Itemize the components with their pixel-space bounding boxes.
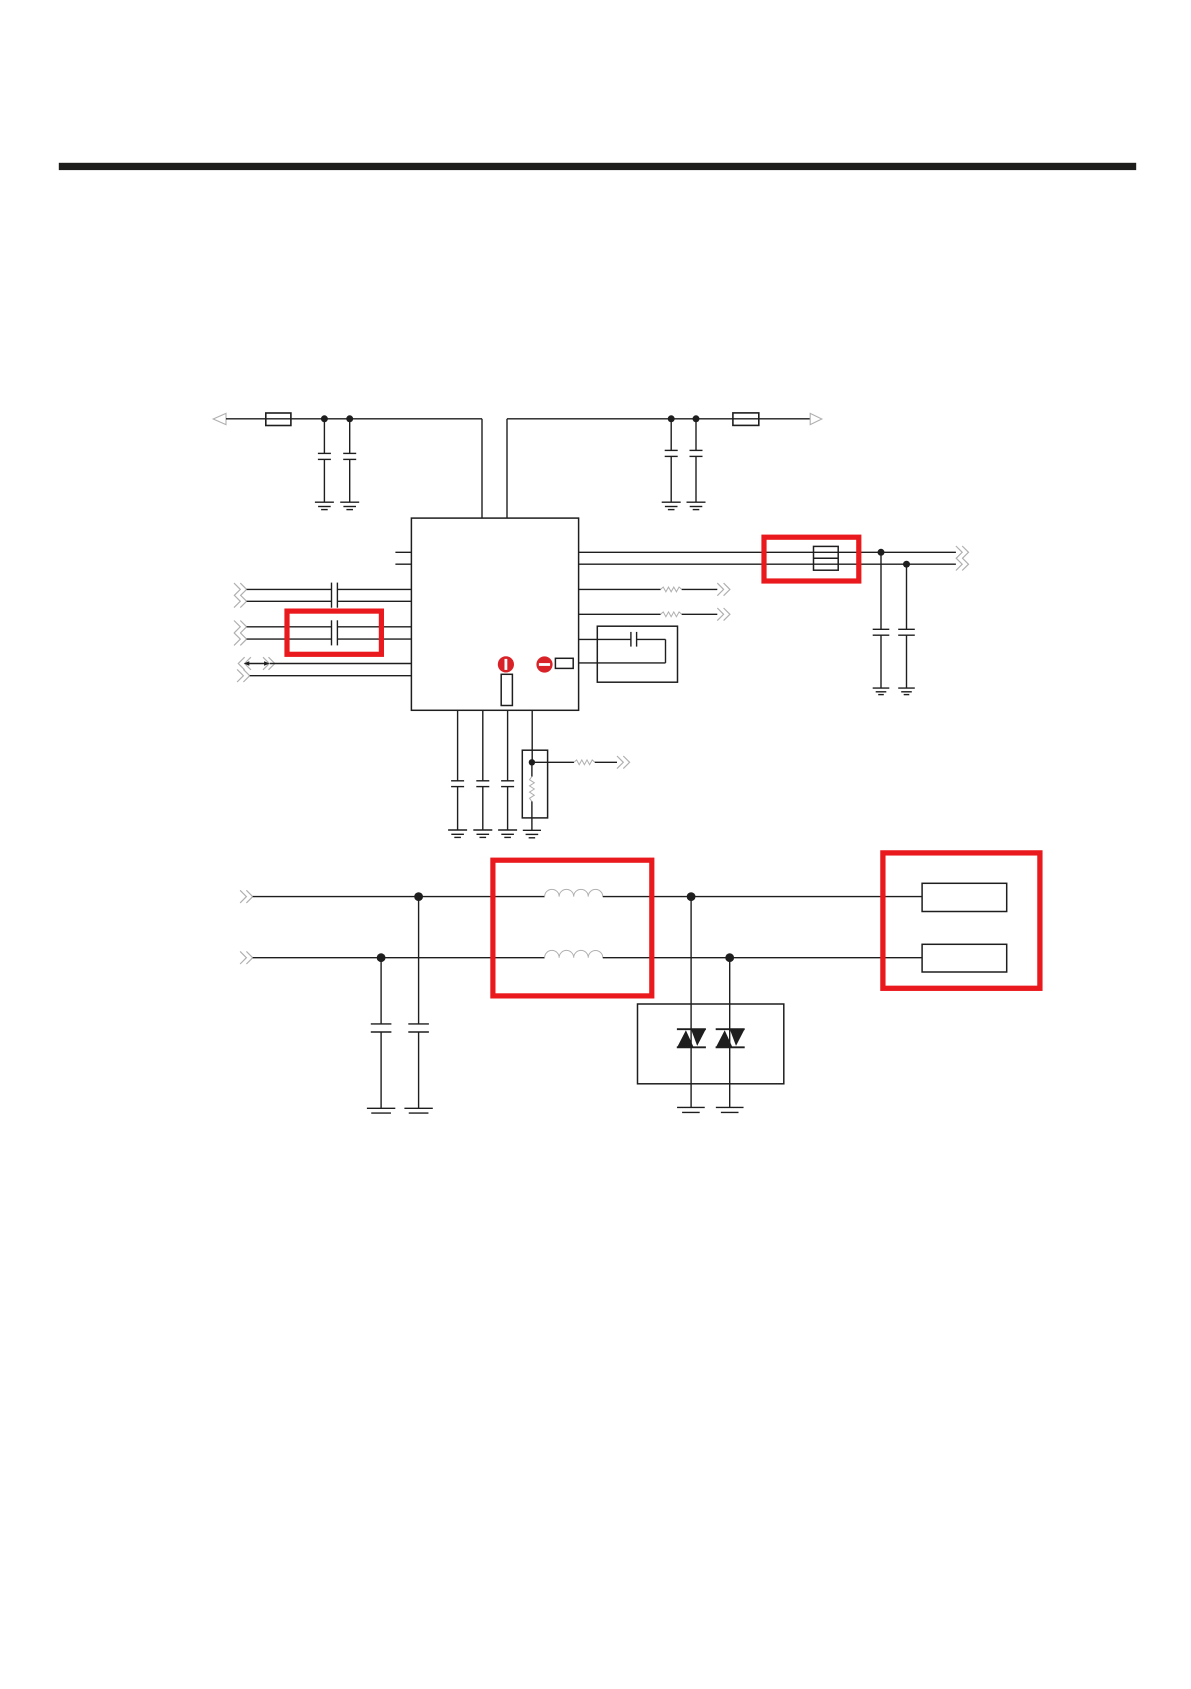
red minus annotation <box>536 656 552 672</box>
off-page connector <box>234 595 240 608</box>
node dot <box>414 892 423 901</box>
bidirectional off-page connector <box>238 657 244 670</box>
connector pad 1 <box>922 883 1007 911</box>
capacitor C6 plates <box>331 620 333 645</box>
wire <box>247 638 332 640</box>
capacitor C8 <box>906 564 908 629</box>
resistor R3 (vertical) <box>531 762 533 776</box>
ground <box>898 687 915 689</box>
wire <box>247 626 332 628</box>
ground <box>873 687 890 689</box>
ground <box>498 829 517 831</box>
pin stub <box>395 551 411 553</box>
capacitor C9 plates <box>630 632 632 647</box>
node dot <box>878 549 885 556</box>
ground <box>473 829 492 831</box>
wire <box>507 418 810 420</box>
off-page connector <box>617 756 623 769</box>
capacitor C7 <box>880 552 882 629</box>
off-page connector <box>956 558 962 571</box>
ground <box>716 1106 744 1108</box>
wire <box>270 663 412 665</box>
IC U1 <box>411 518 578 710</box>
connector pad 2 <box>922 944 1007 972</box>
capacitor C11 <box>482 710 484 781</box>
component box <box>555 658 573 668</box>
node dot <box>529 759 535 765</box>
fuse F1 <box>266 413 291 426</box>
double-headed arrow <box>246 663 268 665</box>
wire line B <box>253 957 545 959</box>
box around C9 <box>597 626 677 682</box>
ground <box>448 829 467 831</box>
fuse F2 <box>733 413 759 426</box>
wire <box>579 551 956 553</box>
inductor L2 <box>545 950 603 957</box>
wire to IC VCC1 <box>481 419 483 518</box>
wire <box>637 638 666 640</box>
highlight box (red) around connector <box>883 853 1040 988</box>
wire <box>226 418 482 420</box>
node dot <box>903 561 910 568</box>
node dot <box>693 415 700 422</box>
node dot <box>321 415 328 422</box>
wire from IC VCC2 <box>506 419 508 518</box>
off-page connector <box>237 669 243 682</box>
capacitor C1 <box>323 419 325 454</box>
wire <box>337 588 411 590</box>
ground <box>677 1106 705 1108</box>
wire <box>603 896 922 898</box>
capacitor C4 <box>695 419 697 451</box>
ground <box>662 501 681 503</box>
component box (vertical) <box>501 674 512 705</box>
node dot <box>377 953 386 962</box>
wire with resistor R4 <box>532 761 574 763</box>
wire <box>729 958 731 1108</box>
wire <box>247 588 332 590</box>
wire <box>579 563 956 565</box>
wire with resistor R2 <box>579 613 661 615</box>
capacitor C3 <box>670 419 672 451</box>
pin stub <box>395 563 411 565</box>
common-mode filter FL1 <box>814 546 839 570</box>
highlight box (red) around C6 <box>287 611 381 654</box>
wire <box>690 897 692 1108</box>
ground <box>523 829 541 831</box>
capacitor C2 <box>349 419 351 454</box>
highlight box (red) around L1/L2 <box>493 860 652 996</box>
wire <box>337 626 411 628</box>
ground <box>340 501 359 503</box>
capacitor C12 <box>507 710 509 781</box>
wire <box>250 675 412 677</box>
capacitor C5 plates <box>331 583 333 608</box>
ground <box>367 1107 395 1109</box>
TVS diode D <box>677 1028 706 1030</box>
capacitor C14 <box>418 897 420 1024</box>
off-page connector <box>956 546 962 559</box>
box around R3 <box>522 750 547 818</box>
off-page connector <box>234 633 240 646</box>
highlight box (red) around FL1 <box>764 537 859 581</box>
off-page connector <box>240 951 246 964</box>
off-page connector <box>240 890 246 903</box>
off-page connector <box>717 608 723 621</box>
wire from IC to R3 <box>531 710 533 762</box>
ground <box>404 1107 432 1109</box>
off-page connector <box>234 621 240 634</box>
TVS diode D <box>716 1028 745 1030</box>
node dot <box>687 892 696 901</box>
capacitor C13 <box>380 958 382 1024</box>
red bar annotation <box>498 656 514 672</box>
node dot <box>725 953 734 962</box>
wire with resistor R1 <box>579 588 661 590</box>
wire <box>579 638 631 640</box>
TVS diode box <box>638 1004 784 1084</box>
wire <box>603 957 922 959</box>
ground <box>687 501 706 503</box>
node dot <box>668 415 675 422</box>
wire <box>337 638 411 640</box>
inductor L1 <box>545 889 603 896</box>
off-page arrow left (ANT) <box>213 413 226 424</box>
ground <box>315 501 334 503</box>
capacitor C10 <box>457 710 459 781</box>
off-page connector <box>717 583 723 596</box>
wire <box>337 600 411 602</box>
off-page arrow right <box>810 413 822 424</box>
off-page connector <box>234 583 240 596</box>
wire line A <box>253 896 545 898</box>
node dot <box>346 415 353 422</box>
header rule <box>59 163 1136 170</box>
wire <box>247 600 332 602</box>
